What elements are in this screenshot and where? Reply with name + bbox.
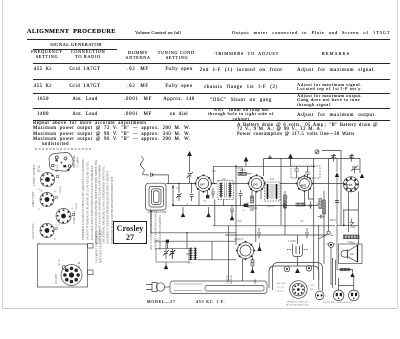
svg-text:WITH VTVM FROM SOCKET: WITH VTVM FROM SOCKET [154,211,158,250]
svg-text:456: 456 [270,178,275,181]
tube socket 1T5GT (layout) [32,164,55,186]
vertical x313 [313,158,315,280]
resistor R12 on AVC line [242,204,248,212]
svg-text:PLUG RECEPTACLE: PLUG RECEPTACLE [286,304,309,307]
pilot jack B0 [315,291,324,300]
B+ arrow mid [244,157,249,167]
wire rectifier down [297,257,299,267]
V3 pin drops [305,190,314,206]
capacitor C18 under V2 [239,190,243,206]
svg-text:60 CY.: 60 CY. [277,290,284,293]
rectifier V6 117Z6 [287,239,308,257]
svg-text:1H5GT: 1H5GT [59,185,62,193]
cap C15 on x337 [335,201,339,203]
svg-text:1: 1 [287,196,289,199]
vertical x341 [340,150,342,225]
row 4 [37,113,49,118]
trimmer capacitor C8 [351,166,360,174]
V1 pin drops [199,191,208,206]
svg-text:1A7GT: 1A7GT [58,217,61,225]
resistor R7 [340,268,350,271]
svg-text:117Z6: 117Z6 [288,239,296,243]
svg-text:1N5: 1N5 [253,183,259,187]
wire x218 drop [215,200,224,226]
ground arrow under rectifier [295,268,300,273]
svg-text:.05: .05 [176,187,180,190]
tube socket 1A7GT (layout) [31,223,54,239]
notes right [237,124,378,129]
trimmer capacitor C14 [169,249,175,260]
power socket caption [286,301,309,307]
capacitor C12 [305,228,309,239]
battery plug caption [323,301,353,304]
wire T2 to V3 [280,183,297,185]
resistor R11 under V1 [203,195,209,203]
power cable (battery cable drawing) [170,281,267,294]
pin jack J1 [284,266,290,272]
svg-text:.005: .005 [237,220,242,223]
svg-text:3 MEG: 3 MEG [266,205,274,208]
svg-text:456: 456 [222,178,227,181]
B+ arrow top left [187,151,192,156]
speaker SP [339,241,363,263]
svg-text:14: 14 [71,208,74,210]
svg-text:1H5: 1H5 [301,184,307,188]
battery box rotated caption [95,229,103,263]
bottom captions [147,300,176,304]
svg-text:TERMINALS TO B MINUS: TERMINALS TO B MINUS [158,215,162,250]
wire cable to enclosure [229,226,243,281]
B+ arrow at V3 [288,154,293,167]
svg-text:1N5GT I-F: 1N5GT I-F [72,210,76,224]
capacitor C5 on top bus [268,156,272,159]
jack circle on bus [315,150,319,154]
capacitor C7 [349,154,354,162]
wire bus to output tube [235,235,237,245]
notes left [33,122,147,127]
capacitor C16 [283,202,286,209]
wire loop to V1 grid [166,183,196,185]
svg-text:35: 35 [38,209,41,211]
bus y225 [213,225,335,227]
junction dot [235,165,345,226]
resistor R9 [296,203,305,206]
antenna lead-in wire [141,157,169,184]
osc coil box [291,166,320,178]
svg-text:B+ B-: B+ B- [78,261,81,268]
IF transformer T2 [265,182,281,201]
svg-text:MEG: MEG [330,219,336,222]
gang condenser box [156,249,189,263]
capacitor C10 [247,205,257,211]
svg-text:117.5V: 117.5V [277,286,285,289]
resistor R8 on V2 cathode [251,196,254,203]
top B+ bus [213,151,360,177]
power socket (cable receptacle) [277,281,315,299]
socket pin value labels [38,171,74,245]
wire loop bottom down [151,211,236,260]
svg-text:(1): (1) [38,165,41,168]
IF transformer T1 [218,181,234,200]
resistor R1 [236,168,252,175]
speaker (chassis layout top view) [38,153,80,173]
V2 pin drops [252,191,261,243]
chassis layout dashed edge [35,148,92,150]
arrow at V5 plate [257,243,261,251]
svg-text:1N5GT: 1N5GT [75,202,78,210]
row 2 [34,85,53,90]
resistor R10 [319,199,322,209]
volume control R4 [344,219,360,245]
output tube V4 1T5GT [343,177,358,192]
svg-text:ALL VOLTAGES MEASURED: ALL VOLTAGES MEASURED [149,210,153,250]
battery plug socket (layout) [55,259,82,286]
svg-text:(2): (2) [40,189,43,192]
svg-text:22: 22 [54,239,57,241]
vertical x324 [323,191,325,264]
wire IF1 primary B+ [212,166,214,183]
junction square [166,240,169,243]
svg-text:.02: .02 [300,220,304,223]
svg-text:BLACK: BLACK [230,275,233,284]
det tube V3 1H5GT [296,175,314,193]
switch feed [329,159,331,259]
svg-text:1T5GT OUTPUT: 1T5GT OUTPUT [32,164,36,186]
capacitor C6 [331,154,336,162]
wire V1 plate to IF1 [212,183,218,185]
battery compartment box [38,244,94,288]
capacitor C1 (ant shunt trimmer) [176,184,182,201]
converter tube V1 1A7GT [194,174,212,193]
capacitor C4 osc grid [211,188,215,199]
svg-text:RED: RED [254,279,257,284]
svg-text:D.C.: D.C. [310,288,315,291]
wires to battery plugs [331,258,354,290]
svg-text:3Q5GT: 3Q5GT [234,237,243,241]
long vertical feed x236 [235,166,237,235]
B- arrow on y225 bus [230,211,235,220]
output tube V5 3Q5GT [234,237,255,260]
antenna loop L1 [146,183,168,214]
light page scan edges [2,0,3,309]
socket area annotations [38,164,78,229]
svg-text:SPK: SPK [351,241,356,244]
svg-text:2 MEG: 2 MEG [238,169,246,172]
capacitor C9 [230,205,234,215]
capacitor C19 [318,215,324,218]
Crosley label box [113,221,147,244]
svg-text:SPEAKER: SPEAKER [73,155,76,168]
oscillator coil L2 [187,248,197,265]
wire bus to rectifier [297,235,299,244]
resistor R3 [323,200,326,214]
B- arrow on bus [335,158,339,177]
ground under R6 [250,266,254,273]
svg-text:4.7: 4.7 [242,209,246,212]
svg-text:3.2: 3.2 [350,253,354,256]
svg-text:A.C.: A.C. [310,284,315,287]
svg-text:68: 68 [54,191,57,193]
svg-text:1A7GT OSC: 1A7GT OSC [31,223,35,239]
power wiring bus pair [269,263,323,292]
ground arrow under C13/C14 [164,262,169,269]
IF amp tube V2 1N5GT [247,174,265,193]
tube socket 1H5GT (layout) [31,191,54,207]
ground arrow below C1 [181,207,186,217]
svg-text:1H5GT DET: 1H5GT DET [31,191,35,207]
ground right of R7 [350,270,355,278]
svg-text:.01: .01 [246,202,250,205]
svg-text:BATTERY CABLE & PLUG: BATTERY CABLE & PLUG [323,301,353,304]
ground arrow below V1 cathode [206,207,211,217]
small component labels scatter [176,169,357,229]
svg-text:A+ A-: A+ A- [58,259,61,266]
vertical x318 [318,225,320,280]
capacitor C13 [163,243,169,259]
capacitor C2 [190,184,194,201]
svg-text:TRIMMER LOCATIONS SHOWN BY ARR: TRIMMER LOCATIONS SHOWN BY ARROWS ON DRA… [81,158,85,240]
pin jack J2 [306,266,312,272]
battery plug B1 [333,290,344,301]
svg-text:1T5: 1T5 [347,183,353,187]
bus y235 [225,234,327,236]
svg-text:BATTERY PLUG SOCKET: BATTERY PLUG SOCKET [99,229,103,263]
capacitor C11 [257,228,261,239]
svg-text:BLACK: BLACK [277,282,286,285]
svg-text:3.2 OHM: 3.2 OHM [77,157,80,168]
row 3 [37,98,49,103]
ground arrow right [360,174,364,179]
svg-text:.0005: .0005 [350,226,357,229]
label 1600 [154,240,160,243]
vertical x285 [284,191,286,235]
AC plug P1 [146,283,170,292]
wire AVC bus [172,185,318,207]
resistor R2 [284,195,287,208]
svg-text:205: 205 [203,200,207,203]
capacitor C17 [309,202,312,209]
dial lamp [327,242,336,247]
svg-text:1A7: 1A7 [200,183,206,187]
layout caption column (rotated text) [81,158,114,244]
cable wire labels [227,275,258,284]
V4 lead wires [337,192,358,246]
svg-text:SOCKET: SOCKET [55,273,58,284]
resistor R6 under V5 [251,256,254,266]
osc trimmer C3 [187,156,194,183]
T2 secondary lead [280,158,282,225]
vertical x337 B- lead [337,177,340,270]
wire V3 to V4 [312,183,345,185]
row 1 [34,68,53,73]
switch S1 [319,231,334,239]
battery plug B2 [349,290,360,301]
wire IF1 to V2 [232,183,249,185]
tube socket 1N5GT (layout) [56,209,76,225]
junction dots main line [150,183,215,234]
rotated notes right of Crosley box [149,210,162,250]
svg-text:220: 220 [212,170,217,173]
